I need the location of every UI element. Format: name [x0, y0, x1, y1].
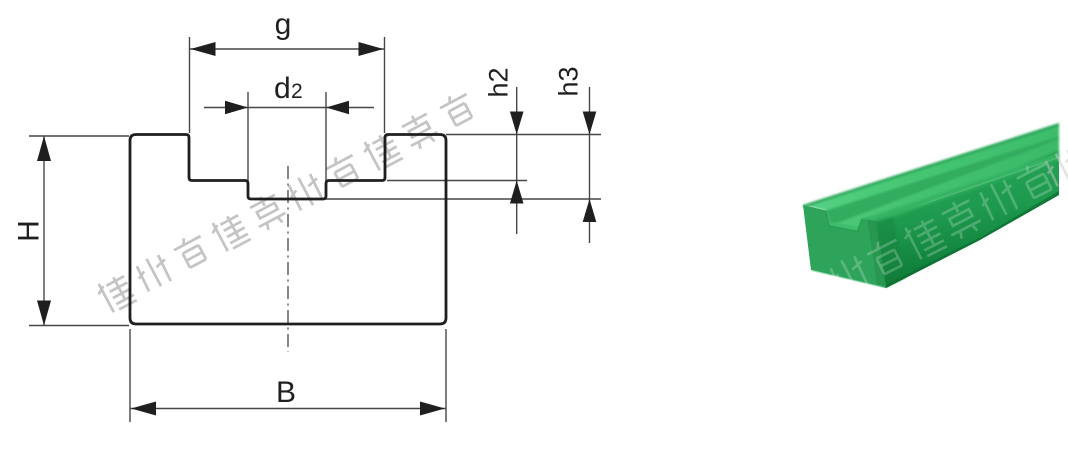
svg-text:g: g [275, 8, 292, 41]
B left arrow [131, 402, 156, 416]
d2 left extension line [247, 92, 249, 197]
groove bottom band [829, 140, 1059, 232]
g left extension line [189, 37, 191, 133]
end face right shading [868, 220, 887, 288]
main side face [876, 158, 1060, 288]
B right extension line [445, 329, 447, 422]
end face bottom edge highlight [812, 271, 885, 288]
h2 dimension line [516, 87, 518, 234]
h3 bottom arrow (pointing up) [583, 199, 597, 222]
bottom edge dark band [886, 191, 1059, 288]
top surface extension line (h2/h3) [446, 134, 601, 136]
B dimension line [130, 408, 446, 410]
g dimension line [190, 48, 385, 50]
end face [803, 205, 886, 288]
end face notch floor highlight [829, 222, 859, 232]
h3 dimension line [589, 87, 591, 243]
h3 top arrow (pointing down) [583, 112, 597, 135]
h2 top arrow (pointing down) [510, 112, 524, 135]
groove bottom extension line (h3) [326, 198, 601, 200]
B left extension line [129, 329, 131, 422]
side face shadow near end [876, 217, 907, 288]
d2 left arrow (outside, pointing right) [225, 101, 248, 115]
H bottom extension line [29, 325, 129, 327]
B right arrow [420, 402, 445, 416]
H bottom arrow [37, 301, 51, 326]
arrows [37, 42, 596, 416]
g left arrow [191, 42, 216, 56]
g right arrow [359, 42, 384, 56]
top channel strip [803, 123, 1059, 232]
watermark over drawing [94, 89, 477, 315]
H top arrow [37, 136, 51, 161]
right wall top band [862, 154, 1059, 222]
svg-text:H: H [13, 220, 46, 242]
thin extension/dimension lines [29, 37, 601, 422]
svg-text:d: d [274, 72, 291, 105]
h2 bottom arrow (pointing up) [510, 181, 524, 204]
left wall inner edge line [826, 136, 1059, 226]
svg-text:h2: h2 [484, 67, 514, 97]
groove slot shadow [858, 150, 1060, 232]
d2 right arrow (outside, pointing left) [326, 101, 349, 115]
step surface extension line (h2) [387, 180, 527, 182]
profile outline [130, 135, 446, 325]
center line (dash-dot) [287, 166, 289, 352]
top silhouette rim (slightly darker) [803, 123, 1059, 208]
svg-text:B: B [276, 376, 296, 409]
d2 dimension line [204, 107, 374, 109]
watermark over green bar [788, 158, 1057, 319]
left wall top band (brightest) [803, 123, 1059, 211]
svg-text:h3: h3 [554, 66, 584, 96]
end face notch shading [826, 211, 862, 232]
g right extension line [384, 37, 386, 133]
ridge transition band [875, 154, 1059, 224]
svg-text:2: 2 [291, 80, 303, 103]
faint watermark tail on white, right of bar end [1041, 146, 1068, 188]
H top extension line [29, 135, 129, 137]
H dimension line [43, 136, 45, 326]
d2 right extension line [325, 92, 327, 197]
